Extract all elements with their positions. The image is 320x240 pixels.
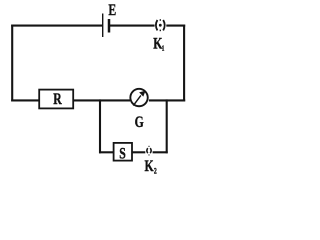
svg-text:K2: K2 bbox=[145, 157, 158, 175]
wire middle-left (left corner to resistor R) bbox=[11, 99, 38, 101]
wire K1 to top-right corner bbox=[166, 25, 185, 27]
switch K1 (closed key: arcs with centre dot) bbox=[156, 19, 165, 31]
battery E plate short thick (negative) bbox=[108, 19, 111, 33]
svg-text:S: S bbox=[119, 145, 126, 163]
box S bbox=[114, 143, 132, 161]
svg-text:R: R bbox=[53, 90, 62, 108]
wire bottom-left (corner to box S) bbox=[99, 151, 113, 153]
battery E plate long (positive) bbox=[102, 14, 104, 38]
wire box S to switch K2 bbox=[132, 151, 145, 153]
wire battery to switch K1 bbox=[110, 25, 155, 27]
wire middle-right (right side to galvanometer G) bbox=[149, 99, 185, 101]
wire shunt-loop right vertical (up to node B) bbox=[166, 99, 168, 153]
wire K2 to bottom-right corner bbox=[153, 151, 168, 153]
svg-text:E: E bbox=[108, 1, 116, 19]
wire top-left segment (battery to top-left corner) bbox=[11, 25, 103, 27]
wire right side bbox=[183, 25, 185, 102]
switch K2 (open key: small arcs, no dot) bbox=[147, 146, 151, 156]
wire resistor R to galvanometer G (through node A) bbox=[73, 99, 130, 101]
galvanometer G bbox=[130, 89, 147, 106]
svg-text:K1: K1 bbox=[153, 35, 164, 53]
wire left side bbox=[11, 25, 13, 102]
svg-text:G: G bbox=[135, 113, 144, 131]
resistor R bbox=[39, 90, 73, 109]
wire shunt-loop left vertical (node A down) bbox=[99, 99, 101, 153]
